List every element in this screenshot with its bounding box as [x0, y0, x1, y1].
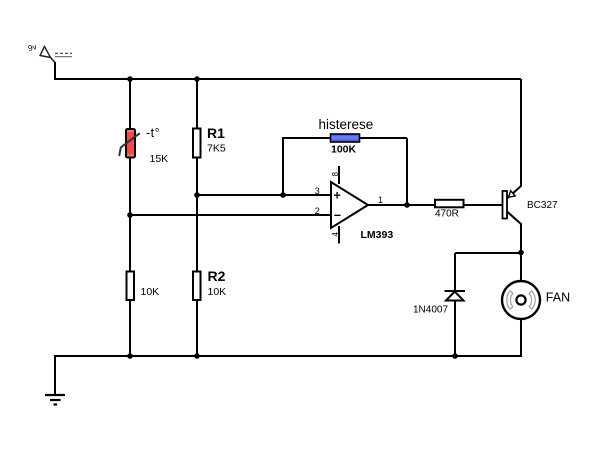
wire R2 branch lower — [196, 300, 198, 356]
svg-text:2: 2 — [315, 206, 320, 216]
wire thermistor branch middle — [129, 157, 131, 272]
wire thermistor branch upper — [129, 79, 131, 130]
svg-text:FAN: FAN — [546, 291, 570, 305]
wire collector down — [520, 223, 522, 281]
svg-text:−: − — [334, 209, 341, 223]
transistor Q1 BC327 — [503, 186, 559, 224]
wire top rail — [54, 78, 521, 80]
wire thermistor branch lower — [129, 300, 131, 356]
svg-text:8: 8 — [331, 172, 340, 177]
wire op-amp output — [368, 204, 503, 206]
node top rail / thermistor branch — [127, 76, 133, 82]
svg-text:BC327: BC327 — [527, 200, 558, 211]
wire pin3 (non-inverting input) — [197, 194, 331, 196]
wire pin2 (inverting input) — [130, 214, 331, 216]
wire feedback right vertical — [406, 138, 408, 205]
node top rail / R1 branch — [194, 76, 200, 82]
node bottom rail / R2 branch — [194, 353, 200, 359]
wire diode branch upper vertical — [454, 253, 456, 292]
svg-text:4: 4 — [331, 232, 340, 237]
wire 9v drop to top rail — [54, 62, 56, 80]
power supply V1 9v symbol — [27, 42, 72, 62]
fan M1 — [502, 281, 570, 319]
node R1 branch / pin3 wire — [194, 192, 200, 198]
svg-text:LM393: LM393 — [361, 229, 394, 241]
resistor 470R — [435, 200, 464, 220]
wire feedback left vertical — [282, 138, 284, 195]
wire diode branch horizontal — [455, 252, 521, 254]
svg-text:15K: 15K — [150, 153, 169, 165]
resistor R2 10K — [193, 268, 226, 300]
wire diode branch lower vertical — [454, 301, 456, 357]
svg-text:histerese: histerese — [319, 117, 374, 132]
wire feedback top right — [360, 137, 408, 139]
svg-text:+: + — [334, 189, 341, 203]
node feedback tap on pin3 wire — [280, 192, 286, 198]
thermistor RT1 — [119, 126, 168, 165]
wire fan to bottom rail — [520, 319, 522, 357]
svg-text:R2: R2 — [208, 268, 226, 284]
node bottom rail / thermistor branch — [127, 353, 133, 359]
resistor R1 7K5 — [193, 125, 226, 158]
node output / feedback — [404, 202, 410, 208]
ground — [45, 355, 65, 405]
svg-text:3: 3 — [315, 186, 320, 196]
svg-text:10K: 10K — [208, 286, 227, 298]
svg-text:1: 1 — [378, 195, 383, 205]
svg-text:R1: R1 — [207, 125, 225, 141]
svg-text:470R: 470R — [435, 209, 459, 220]
svg-text:7K5: 7K5 — [207, 143, 226, 155]
wire R1 branch upper — [196, 79, 198, 129]
wire right drop to transistor emitter — [520, 79, 522, 187]
node bottom rail / diode branch — [452, 353, 458, 359]
svg-text:-t°: -t° — [146, 126, 160, 140]
node thermistor branch / pin2 wire — [127, 212, 133, 218]
wire R1 branch middle — [196, 157, 198, 272]
wire bottom rail — [54, 355, 521, 357]
svg-text:100K: 100K — [331, 144, 357, 156]
wire feedback top left — [282, 137, 331, 139]
op-amp U1 LM393 — [315, 166, 394, 244]
node collector / diode branch — [518, 250, 524, 256]
resistor 100K histerese — [319, 117, 374, 156]
svg-text:10K: 10K — [141, 286, 160, 298]
svg-text:1N4007: 1N4007 — [413, 305, 448, 316]
diode D1 1N4007 — [413, 291, 465, 316]
resistor 10K (left divider) — [127, 272, 160, 301]
